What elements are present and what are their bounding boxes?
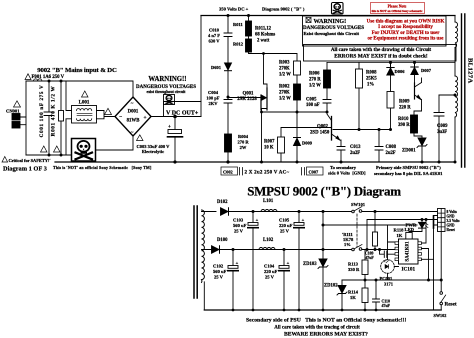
fuse F001: [34, 79, 42, 81]
warning triangle under C001: [41, 146, 48, 152]
svg-text:R012: R012: [233, 42, 244, 47]
svg-text:D009: D009: [302, 141, 313, 146]
svg-text:C104: C104: [264, 264, 275, 269]
svg-text:270 R: 270 R: [309, 78, 321, 83]
capacitor C104: [283, 250, 285, 266]
resistor R012: [248, 36, 250, 39]
svg-text:Reset: Reset: [447, 228, 456, 232]
switch SW101 link dashed: [356, 214, 358, 247]
svg-text:or Equipment resulting from it: or Equipment resulting from its use: [368, 37, 445, 42]
svg-text:Exist throughout this Circuit: Exist throughout this Circuit: [304, 31, 360, 36]
svg-text:D007: D007: [421, 68, 432, 73]
svg-text:To secondary: To secondary: [330, 165, 357, 170]
switch SW102: [440, 292, 443, 295]
wire ZD103 vertical: [322, 212, 324, 311]
svg-text:C109: C109: [365, 252, 374, 256]
zener ZD001: [414, 133, 422, 138]
resistor R007: [278, 137, 285, 153]
switch SW101 pole2: [352, 248, 355, 251]
chip IC101 pins right: [418, 242, 422, 245]
svg-text:R002: R002: [279, 85, 290, 90]
svg-text:R009: R009: [399, 100, 410, 105]
svg-text:D006: D006: [395, 69, 406, 74]
resistor R113: [364, 250, 366, 261]
diode D601: [225, 63, 232, 70]
wire top rail 350V: [201, 15, 455, 17]
transistor Q002: [331, 117, 333, 141]
resistor R003: [294, 61, 301, 75]
svg-text:1%: 1%: [367, 83, 374, 88]
wire mains left vertical: [25, 81, 27, 155]
wire mid bus q001 source: [262, 111, 328, 113]
svg-text:IC101: IC101: [402, 267, 416, 273]
node C001 top: [48, 80, 51, 83]
V DC OUT box: [164, 102, 202, 117]
wire bottom right of skull: [97, 136, 134, 150]
svg-text:C010: C010: [209, 28, 220, 33]
node R001 top: [60, 80, 63, 83]
wire feed bus under warnbox: [327, 62, 455, 64]
svg-text:2W: 2W: [240, 145, 247, 150]
svg-text:WARNING!: WARNING!: [314, 18, 347, 25]
node IC drop: [427, 279, 430, 282]
wire opto links: [388, 267, 399, 281]
svg-text:R010: R010: [398, 117, 409, 122]
wire bridge to V DC OUT: [151, 116, 201, 118]
svg-text:R008: R008: [366, 71, 377, 76]
node bus dots secondary: [232, 309, 235, 312]
connector CN001: [12, 114, 20, 121]
svg-text:1/2 W: 1/2 W: [309, 84, 321, 89]
svg-text:1%: 1%: [344, 242, 351, 247]
svg-text:81WB: 81WB: [127, 119, 141, 124]
note please note red box: [371, 3, 425, 14]
node C104 top: [283, 248, 286, 251]
zener ZD103: [319, 259, 327, 267]
node R113 bottom: [364, 279, 367, 282]
capacitor C004: [224, 97, 232, 134]
warning triangle F001: [25, 74, 31, 80]
node C102 top: [232, 248, 235, 251]
svg-text:350 Volts DC +: 350 Volts DC +: [219, 7, 249, 12]
resistor R001: [60, 81, 62, 155]
diode D100: [212, 246, 220, 254]
svg-text:C102: C102: [213, 264, 224, 269]
wire mains bottom: [26, 154, 71, 156]
node reset cross: [440, 279, 443, 282]
inductor L102: [259, 248, 275, 250]
resistor R009: [387, 92, 394, 109]
resistor R118: [409, 228, 422, 232]
node C008 top: [378, 128, 381, 131]
wire R012 to R003: [249, 52, 298, 61]
chip IC101: [399, 239, 419, 264]
node R001 bottom: [60, 154, 63, 157]
svg-text:220 uF: 220 uF: [264, 269, 278, 274]
svg-text:25 V: 25 V: [280, 229, 290, 234]
inductor L001 windings: [77, 109, 92, 111]
node C110 top: [375, 279, 378, 282]
svg-text:R007: R007: [264, 140, 275, 145]
svg-text:R114: R114: [348, 290, 359, 295]
svg-text:All care taken with the tracin: All care taken with the tracing of circu…: [274, 326, 360, 331]
warning triangle C003: [137, 135, 144, 141]
svg-text:C005: C005: [306, 98, 317, 103]
wire mains top: [26, 81, 133, 97]
warning triangle CN001: [14, 101, 21, 107]
resistor R111: [374, 212, 376, 233]
warning triangle L001: [82, 91, 89, 97]
wire secondary taps: [202, 212, 217, 311]
svg-text:2 watt: 2 watt: [257, 39, 270, 44]
node ZD001 bottom: [421, 161, 424, 164]
svg-text:C002: C002: [223, 169, 233, 174]
resistor R011: [248, 16, 250, 22]
svg-text:side 0 Volts [GND]: side 0 Volts [GND]: [328, 171, 366, 176]
svg-text:C105: C105: [279, 218, 290, 223]
svg-text:Q002: Q002: [317, 125, 329, 130]
switch SW101 pole1: [352, 210, 355, 213]
svg-text:N: N: [14, 123, 17, 128]
node C105 top: [298, 210, 301, 213]
svg-text:I accept no Responsibility: I accept no Responsibility: [378, 25, 433, 30]
node xfmr mid: [454, 94, 457, 97]
svg-text:CN001: CN001: [6, 109, 20, 114]
svg-text:2SD 1450: 2SD 1450: [310, 131, 330, 136]
svg-text:R003: R003: [279, 61, 290, 66]
svg-text:3u3F: 3u3F: [437, 130, 447, 135]
capacitor C008: [375, 130, 383, 163]
wire left vertical to V DC OUT: [200, 16, 202, 102]
node q001 source: [260, 111, 263, 114]
capacitor C010: [224, 16, 232, 64]
node R004 bottom: [226, 160, 229, 163]
node D009 bottom: [296, 161, 299, 164]
svg-text:+: +: [144, 115, 147, 121]
node ZD103 top: [322, 210, 325, 213]
resistor R008: [358, 63, 360, 70]
capacitor C009: [434, 95, 444, 162]
capacitor C013: [337, 147, 345, 163]
node gate tap: [227, 96, 230, 99]
wire opto feed: [388, 225, 396, 260]
wire IC right pin drops: [422, 243, 434, 280]
svg-text:For INJURY or DEATH to user: For INJURY or DEATH to user: [372, 31, 441, 36]
svg-text:270K: 270K: [279, 91, 290, 96]
svg-text:R113: R113: [348, 262, 359, 267]
node R111 top: [374, 210, 377, 213]
svg-text:25 V: 25 V: [265, 275, 275, 280]
wire CN001 stubs: [20, 117, 26, 125]
svg-text:560 uF: 560 uF: [213, 269, 227, 274]
svg-text:3171: 3171: [384, 282, 394, 287]
svg-text:Please Note: Please Note: [388, 4, 407, 8]
capacitor C005: [323, 100, 331, 113]
node C001 bottom: [48, 154, 51, 157]
capacitor C003 electrolytic: [174, 117, 176, 130]
svg-text:25 V: 25 V: [234, 229, 244, 234]
node xfmr bottom: [454, 161, 457, 164]
node C013 bottom: [340, 161, 343, 164]
led PWR: [421, 218, 424, 221]
svg-text:exist throughout circuit: exist throughout circuit: [147, 90, 187, 94]
wire ZD102 vertical: [341, 280, 343, 310]
node led feed: [322, 224, 325, 227]
svg-text:10 K: 10 K: [264, 146, 274, 151]
svg-text:Diagram 9002 ( "B" ): Diagram 9002 ( "B" ): [262, 7, 305, 12]
transistor Q001: [260, 95, 262, 110]
svg-text:220 R: 220 R: [399, 106, 411, 111]
svg-text:D102: D102: [217, 200, 228, 205]
svg-text:SA41K01: SA41K01: [405, 241, 410, 262]
resistor R002: [294, 84, 301, 100]
svg-text:47uF: 47uF: [366, 256, 375, 260]
skull hazard box: [72, 139, 96, 162]
svg-text:2u2F: 2u2F: [350, 151, 360, 156]
svg-text:ERRORS MAY EXIST if in doubt c: ERRORS MAY EXIST if in doubt check!: [334, 54, 428, 60]
svg-text:C001 100 nF 275 V: C001 100 nF 275 V: [39, 85, 45, 138]
node C005 bottom: [326, 111, 329, 114]
warning triangle critical: [2, 157, 8, 163]
diode D102: [221, 208, 229, 216]
svg-text:47uF: 47uF: [382, 304, 391, 308]
svg-text:1K: 1K: [350, 295, 356, 300]
svg-text:8 Volts: 8 Volts: [447, 210, 458, 214]
wire gate: [228, 97, 261, 99]
bridge rectifier D001: [115, 97, 151, 136]
svg-text:WARNING!!: WARNING!!: [148, 76, 186, 83]
transformer T001 core: [462, 14, 465, 167]
wire L001 right to bridge: [97, 111, 116, 119]
svg-text:2 X 2u2 250 V AC~: 2 X 2u2 250 V AC~: [245, 170, 290, 175]
svg-text:R011: R011: [233, 22, 244, 27]
zener ZD102: [338, 286, 346, 294]
svg-text:ZD103: ZD103: [303, 262, 317, 267]
opto PC001: [381, 260, 395, 274]
svg-text:R118: R118: [394, 228, 405, 233]
skull icon top: [332, 3, 344, 15]
wire reset drop: [440, 232, 442, 292]
wire pin1 up: [422, 220, 427, 244]
warning triangle bridge: [105, 108, 112, 114]
small skull icon V DC OUT: [164, 95, 175, 105]
capacitor C102: [232, 250, 234, 266]
svg-text:SW102: SW102: [434, 313, 447, 318]
capacitor C105: [298, 212, 300, 223]
svg-text:SW101: SW101: [351, 202, 366, 207]
wire rail3: [367, 220, 438, 250]
svg-text:this is NOT an Official Sony s: this is NOT an Official Sony schematic: [372, 9, 424, 13]
wire C009 top link: [439, 94, 455, 96]
svg-text:270 R: 270 R: [237, 140, 249, 145]
inductor L001 box: [72, 106, 97, 124]
wire emitter bus: [333, 129, 391, 131]
wire row2 rail: [220, 249, 395, 251]
wire opto bottom bus: [342, 279, 441, 281]
svg-text:Critical for SAFETY!ʹ: Critical for SAFETY!ʹ: [9, 158, 51, 163]
svg-text:Electrolytic: Electrolytic: [142, 149, 164, 154]
svg-text:+: +: [256, 218, 259, 223]
svg-text:560 uF: 560 uF: [233, 223, 247, 228]
capacitor C103: [252, 212, 254, 223]
wire L001 left: [66, 81, 72, 155]
node R111 bottom: [374, 248, 377, 251]
diode D007: [411, 63, 418, 68]
chip IC101 pins left: [395, 242, 399, 245]
resistor R114: [362, 288, 368, 303]
svg-text:4 n7 F: 4 n7 F: [208, 33, 220, 38]
svg-text:SMPSU 9002 ("B") Diagram: SMPSU 9002 ("B") Diagram: [247, 184, 401, 199]
wire bottom bus secondary: [204, 309, 441, 311]
svg-text:100 nF: 100 nF: [306, 103, 320, 108]
diode D006: [387, 63, 394, 68]
node C003 top: [173, 115, 177, 119]
wire row1 8V rail: [229, 211, 438, 213]
svg-text:C103: C103: [233, 218, 244, 223]
svg-text:1/2 W: 1/2 W: [279, 97, 291, 102]
note C002 C007 row: [221, 167, 323, 175]
transformer T001 primary winding: [454, 16, 456, 23]
node C003 bottom: [173, 160, 176, 163]
svg-text:L101: L101: [263, 199, 274, 204]
svg-text:+: +: [236, 261, 239, 266]
svg-text:All care taken with the drawin: All care taken with the drawing of this …: [331, 47, 432, 53]
connector CN101: [438, 209, 446, 232]
svg-text:R006: R006: [309, 72, 320, 77]
capacitor C001: [44, 81, 54, 155]
svg-text:D100: D100: [217, 238, 228, 243]
node snubber top: [227, 14, 230, 17]
svg-text:1/2 W: 1/2 W: [279, 73, 291, 78]
svg-text:C110: C110: [382, 300, 390, 304]
diode D009: [294, 137, 301, 139]
svg-text:−: −: [119, 115, 122, 121]
svg-text:Diagram 1 OF 3: Diagram 1 OF 3: [3, 166, 47, 173]
svg-text:C004: C004: [208, 90, 219, 95]
svg-text:C013: C013: [350, 145, 361, 150]
svg-text:25K5: 25K5: [366, 77, 377, 82]
resistor R004: [225, 134, 232, 152]
wire led feed: [323, 224, 417, 226]
node R011 top: [247, 14, 250, 17]
node R002 bottom: [296, 111, 299, 114]
svg-text:+: +: [168, 125, 171, 130]
resistor R010: [411, 115, 418, 133]
svg-text:3.5 Volts: 3.5 Volts: [447, 219, 461, 223]
svg-text:390 R: 390 R: [398, 123, 410, 128]
svg-text:BEWARE ERRORS MAY EXIST?: BEWARE ERRORS MAY EXIST?: [284, 332, 368, 338]
svg-text:C007: C007: [309, 169, 320, 174]
svg-text:Q001: Q001: [243, 92, 255, 97]
svg-text:R011,12: R011,12: [255, 27, 272, 32]
svg-text:~: ~: [131, 131, 134, 136]
node row2 cross: [322, 248, 325, 251]
svg-text:1K: 1K: [397, 233, 403, 238]
svg-text:Reset: Reset: [445, 302, 457, 308]
svg-text:2KV: 2KV: [209, 101, 219, 106]
svg-text:C008: C008: [386, 145, 397, 150]
svg-text:This is ʹNOTʹ an official Sony: This is ʹNOTʹ an official Sony Schematic…: [53, 165, 152, 170]
svg-text:220 uF: 220 uF: [279, 223, 293, 228]
transistor Q003: [414, 83, 416, 99]
svg-text:GND: GND: [447, 214, 455, 218]
svg-text:+: +: [302, 218, 305, 223]
wire main primary bus: [55, 161, 455, 163]
svg-text:630 V: 630 V: [208, 39, 220, 44]
svg-text:Primary side SMPSU 9002 ("B"): Primary side SMPSU 9002 ("B"): [376, 165, 441, 170]
capacitor C109: [378, 248, 381, 251]
svg-text:+: +: [287, 261, 290, 266]
transformer T001 secondary winding: [202, 210, 205, 282]
svg-text:ZD102: ZD102: [324, 284, 338, 289]
svg-text:2SK 2128: 2SK 2128: [237, 97, 257, 102]
svg-text:D001: D001: [128, 110, 139, 115]
svg-text:R004: R004: [238, 134, 249, 139]
inductor L101: [261, 210, 277, 212]
svg-text:ZD001: ZD001: [402, 149, 416, 154]
svg-text:100 pF: 100 pF: [206, 96, 219, 101]
node C009 bottom: [438, 161, 441, 164]
resistor R006: [326, 63, 328, 71]
transformer T001 core secondary: [194, 206, 197, 298]
warning box all care: [304, 45, 457, 62]
svg-text:L001: L001: [79, 101, 90, 106]
node C103 top: [252, 210, 255, 213]
node R008 bottom: [358, 128, 361, 131]
svg-text:25 V: 25 V: [214, 275, 224, 280]
wire R007 branch: [281, 128, 332, 138]
svg-text:2u2F: 2u2F: [386, 151, 396, 156]
svg-text:GND: GND: [447, 224, 455, 228]
warning triangle under R001: [54, 146, 61, 152]
svg-text:V DC OUT+: V DC OUT+: [166, 110, 199, 116]
svg-text:Secondary side of PSU This i: Secondary side of PSU This is NOT an Off…: [246, 318, 407, 324]
svg-text:270K: 270K: [279, 67, 290, 72]
svg-text:68 Kohms: 68 Kohms: [255, 33, 275, 38]
svg-text:BL127A: BL127A: [467, 58, 474, 84]
svg-text:secondary has 8 pin DIL SA 41K: secondary has 8 pin DIL SA 41K01: [374, 171, 443, 176]
svg-text:L102: L102: [263, 238, 274, 243]
capacitor C110: [373, 280, 380, 310]
svg-text:Use this diagram at you OWN RI: Use this diagram at you OWN RISK: [367, 20, 445, 25]
warning box primary: [303, 16, 447, 46]
svg-text:LED: LED: [405, 227, 415, 232]
svg-text:R001 470 K 1/2 W: R001 470 K 1/2 W: [51, 86, 57, 137]
svg-text:D601: D601: [211, 65, 222, 70]
svg-text:~: ~: [131, 102, 134, 107]
svg-text:330 R: 330 R: [348, 267, 360, 272]
svg-text:9002 "B" Mains input & DC: 9002 "B" Mains input & DC: [37, 67, 117, 74]
svg-text:PC001: PC001: [380, 276, 393, 281]
wire gnd pins: [434, 216, 438, 311]
